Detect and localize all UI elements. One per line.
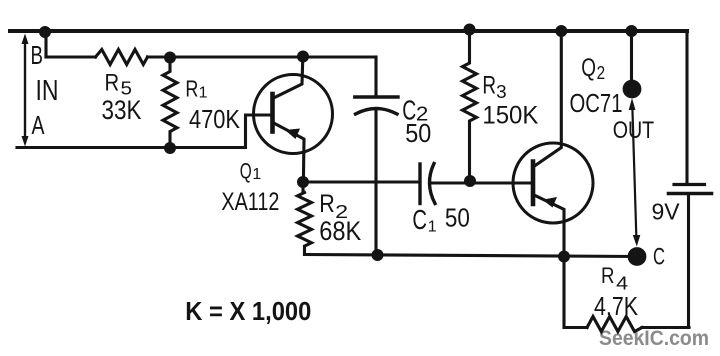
svg-text:R: R bbox=[105, 70, 120, 97]
svg-text:50: 50 bbox=[405, 118, 431, 148]
resistor R3 vertical bbox=[463, 30, 477, 182]
svg-text:R: R bbox=[185, 76, 198, 102]
node top-left junction bbox=[39, 26, 51, 38]
transistor Q1 base bar bbox=[270, 94, 275, 132]
transistor Q1 circle bbox=[254, 75, 333, 154]
resistor R4 zigzag bbox=[587, 317, 642, 332]
wire input bottom rail A bbox=[17, 115, 271, 148]
wire right side upper (to battery) bbox=[685, 31, 688, 183]
capacitor C1 left plate bbox=[418, 164, 421, 204]
svg-text:50: 50 bbox=[445, 203, 470, 233]
svg-text:2: 2 bbox=[597, 63, 606, 83]
svg-text:C: C bbox=[412, 204, 427, 235]
node C2/R2 bottom junction bbox=[372, 249, 384, 261]
node Q1 collector junction bbox=[297, 51, 309, 63]
svg-text:R: R bbox=[319, 190, 335, 218]
node Q2 collector top junction bbox=[555, 25, 567, 37]
node R4 branch junction bbox=[558, 251, 570, 263]
wire C2 top drop bbox=[374, 57, 377, 96]
wire right side lower (battery to R4) bbox=[687, 195, 690, 328]
wire emitter/output rail bbox=[305, 255, 638, 257]
svg-text:B: B bbox=[31, 40, 44, 70]
resistor R1 vertical bbox=[163, 58, 177, 149]
wire middle line right (C1 to Q2 base) bbox=[431, 181, 534, 184]
svg-text:K = X 1,000: K = X 1,000 bbox=[185, 296, 311, 326]
svg-text:33K: 33K bbox=[102, 95, 142, 125]
battery BT1 bottom plate (long) bbox=[669, 192, 712, 196]
node OUT top junction bbox=[626, 25, 638, 37]
resistor R2 vertical bbox=[298, 182, 312, 255]
transistor Q1 collector bbox=[273, 58, 303, 99]
svg-text:9V: 9V bbox=[652, 199, 681, 225]
svg-text:470K: 470K bbox=[189, 104, 241, 134]
node R3 top junction bbox=[464, 24, 476, 36]
resistor R5 zigzag bbox=[96, 50, 148, 65]
wire C2 bottom drop to output rail bbox=[374, 109, 377, 256]
output port arrow (OUT to C) bbox=[629, 98, 641, 247]
node R5/R1 junction bbox=[164, 52, 176, 64]
capacitor C2 top plate bbox=[355, 95, 398, 98]
wire B line left segment bbox=[46, 55, 96, 58]
wire drop from top rail to R5 line bbox=[44, 32, 47, 57]
svg-text:C: C bbox=[653, 244, 665, 271]
node C1/R3 bottom junction bbox=[464, 175, 476, 187]
svg-text:Q: Q bbox=[240, 158, 252, 183]
svg-text:A: A bbox=[32, 110, 45, 140]
svg-text:IN: IN bbox=[36, 75, 59, 107]
terminal C bbox=[628, 247, 647, 266]
capacitor C1 right plate (curved) bbox=[429, 164, 435, 204]
svg-text:1: 1 bbox=[252, 166, 261, 183]
wire OUT drop from top rail bbox=[630, 31, 633, 82]
svg-text:OUT: OUT bbox=[613, 117, 655, 144]
transistor Q2 collector bbox=[533, 31, 561, 167]
node R1 bottom junction bbox=[164, 142, 176, 154]
terminal OUT upper bbox=[623, 80, 642, 99]
svg-text:1: 1 bbox=[428, 219, 437, 236]
svg-text:3: 3 bbox=[496, 82, 507, 102]
node Q1 emitter junction bbox=[297, 176, 309, 188]
wire B line to C2 corner bbox=[148, 55, 377, 58]
transistor Q2 base bar bbox=[531, 162, 536, 205]
wire R4 branch vertical bbox=[564, 257, 587, 328]
input port arrow (A-B) bbox=[22, 34, 29, 147]
svg-text:R: R bbox=[482, 72, 496, 100]
svg-text:R: R bbox=[601, 263, 615, 288]
wire top rail B+ bbox=[10, 29, 687, 33]
wire middle line left (Q1 emitter to C1) bbox=[303, 180, 420, 183]
svg-text:Q: Q bbox=[581, 54, 596, 82]
transistor Q2 emitter arrow bbox=[543, 197, 558, 208]
svg-text:XA112: XA112 bbox=[221, 188, 279, 216]
capacitor C2 bottom plate (curved) bbox=[356, 109, 398, 115]
wire R4 to right corner bbox=[642, 326, 689, 329]
svg-text:OC71: OC71 bbox=[570, 88, 623, 118]
svg-text:68K: 68K bbox=[319, 216, 361, 246]
svg-text:150K: 150K bbox=[482, 102, 538, 130]
transistor Q2 emitter bbox=[533, 195, 564, 257]
transistor Q1 emitter bbox=[273, 122, 305, 181]
svg-text:1: 1 bbox=[199, 84, 208, 101]
svg-text:4.7K: 4.7K bbox=[594, 291, 639, 321]
transistor Q2 circle bbox=[513, 143, 593, 223]
transistor Q1 emitter arrow bbox=[285, 129, 300, 140]
battery BT1 top plate (short) bbox=[674, 183, 705, 186]
